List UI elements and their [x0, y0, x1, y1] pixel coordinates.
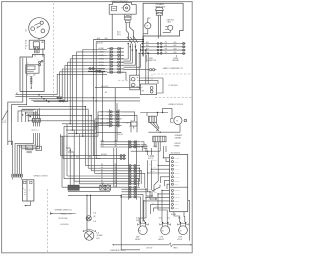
label ice maker water valve	[155, 3, 165, 8]
surface light module wiring	[140, 108, 172, 118]
bottom dimension line with arrows	[112, 243, 192, 247]
butter conditioner receptacle	[130, 75, 140, 90]
svg-text:B-14: B-14	[96, 233, 99, 235]
label A-1 (power cord lead)	[24, 29, 27, 32]
svg-text:B-32 (BK): B-32 (BK)	[175, 197, 181, 199]
left small ladder (4 rows)	[121, 188, 138, 198]
label M4 leads	[159, 218, 170, 220]
relay K1 and overload boxes	[26, 145, 42, 153]
labels under dimension line	[146, 246, 178, 249]
svg-text:CONT. ON: CONT. ON	[146, 247, 152, 249]
svg-text:B-36: B-36	[69, 157, 72, 159]
wire top supply bus N	[96, 41, 143, 43]
svg-text:B-7 (OR): B-7 (OR)	[175, 180, 180, 182]
svg-text:B-32: B-32	[146, 45, 149, 47]
wire arrows defrost leads	[127, 36, 138, 44]
svg-text:SIDE BY SIDE: SIDE BY SIDE	[58, 218, 67, 220]
wire long return run	[121, 195, 140, 249]
compressor motor M5	[178, 222, 189, 235]
label schematic series	[55, 208, 73, 211]
condenser fan motor M4	[160, 222, 171, 235]
wire junction box to control box	[42, 48, 44, 56]
svg-text:B-3 (R): B-3 (R)	[175, 165, 179, 167]
wire ice maker supply left edge	[142, 36, 144, 56]
svg-text:B-31: B-31	[154, 192, 157, 194]
label M5 leads	[178, 218, 181, 220]
svg-text:B-22: B-22	[101, 146, 104, 148]
wire verticals crossing ladder	[114, 148, 117, 187]
border frame of diagram sheet	[2, 2, 193, 253]
svg-text:COMP: COMP	[178, 237, 182, 239]
wire elbows feeding J2	[18, 108, 40, 122]
wire plug to junction box	[38, 38, 40, 40]
svg-text:B-6: B-6	[101, 172, 103, 174]
thermostat S1 (cold control) inner assembly	[26, 60, 43, 73]
wires module outputs and labels row	[131, 142, 160, 160]
ground return arrow under door switch	[24, 201, 30, 206]
label B-D6	[117, 134, 124, 136]
label cube size adjust	[166, 19, 173, 23]
power plug P1 (power cord)	[29, 18, 50, 39]
wire elbows right of J4	[96, 112, 137, 132]
svg-text:B-7: B-7	[101, 175, 103, 177]
svg-text:Y: Y	[38, 130, 40, 131]
svg-text:CONNECTOR: CONNECTOR	[147, 60, 156, 62]
harness connector J4 (middle ladder)	[101, 109, 122, 127]
svg-text:B-PLUG: B-PLUG	[171, 214, 176, 216]
svg-text:B-35 (P): B-35 (P)	[175, 208, 180, 210]
wires feeding junction block and door contacts	[66, 148, 108, 185]
wires from connector strip to module box	[136, 168, 144, 188]
svg-text:+DEFROST: +DEFROST	[174, 143, 181, 145]
svg-text:B-30: B-30	[148, 188, 151, 190]
svg-text:3: 3	[37, 27, 38, 29]
wires out of right terminal module box	[139, 157, 189, 240]
wire timer motor to line bus	[111, 14, 113, 39]
wire connector terminal strip rows	[141, 41, 186, 55]
wires terminal rows to receptacle	[136, 49, 140, 75]
labels on module box feed wires	[147, 156, 176, 216]
evaporator fan motor M3	[137, 222, 148, 235]
label A-D2	[97, 41, 103, 44]
svg-text:LT. SWITCHES: LT. SWITCHES	[168, 85, 177, 87]
wire diagonal to left border	[2, 111, 7, 120]
svg-text:B-6 (GY): B-6 (GY)	[175, 177, 180, 179]
inline connector row (light circuit)	[88, 68, 105, 73]
wire center vertical drop	[114, 88, 116, 142]
wire elbows J2 pins to bundle	[8, 141, 40, 149]
main harness connector J1 (upper ladder)	[99, 47, 125, 74]
wire water valve leads	[158, 15, 160, 38]
wire long horizontal run 2	[58, 100, 140, 102]
defrost heater resistor R1 (hatched element)	[30, 76, 33, 89]
wires from hatched connector down	[131, 142, 161, 152]
label side by side	[58, 218, 67, 220]
main schematic ladder rows (upper group)	[100, 140, 140, 147]
svg-text:B-4 (Y): B-4 (Y)	[175, 169, 179, 171]
svg-text:B-3: B-3	[101, 164, 103, 166]
wire elbows into connector J4	[70, 112, 109, 136]
door switch terminal lugs	[12, 174, 23, 177]
labels lamp	[96, 233, 102, 240]
wire W run to lower left	[11, 92, 26, 123]
wire bus drops to connector	[93, 40, 96, 48]
svg-text:B-2: B-2	[122, 48, 124, 50]
svg-text:(M-C): (M-C)	[117, 34, 121, 36]
svg-text:B-13 B-PLUG: B-13 B-PLUG	[60, 224, 68, 226]
caption M3	[135, 236, 141, 241]
connector strip J3 (two-column)	[129, 140, 137, 199]
svg-text:B-5: B-5	[101, 169, 103, 171]
wire weave horizontal runs (center-left)	[18, 106, 109, 137]
section divider dashed line (cabinet light)	[118, 74, 192, 80]
svg-text:B-36 (BU): B-36 (BU)	[101, 154, 107, 156]
label A-2 BK	[95, 70, 101, 73]
svg-text:B-36 (BU): B-36 (BU)	[148, 155, 154, 157]
label A-D4	[117, 31, 121, 36]
door switch S3 assembly	[22, 180, 34, 201]
wire elbows (upper ladder to right)	[124, 43, 142, 67]
wire ice maker motor lead	[143, 29, 148, 34]
caption M4	[158, 237, 164, 241]
svg-text:B-4: B-4	[101, 167, 103, 169]
svg-text:SCREW: SCREW	[173, 58, 179, 60]
labels on distribution line	[101, 85, 134, 88]
section divider dashed line (top left vertical)	[53, 3, 55, 96]
wires right bottom cluster	[138, 142, 167, 222]
junction box with strain relief	[25, 40, 45, 50]
door switch contacts (crossed boxes)	[100, 185, 111, 190]
svg-text:B-11: B-11	[101, 186, 104, 188]
wire surface module bottom run	[148, 125, 180, 133]
light switch S4 box	[140, 84, 156, 95]
junction block filled	[68, 185, 79, 190]
inline connectors mid group	[100, 154, 126, 159]
wire weave vertical drops to schematic ladder	[62, 107, 100, 188]
water valve solenoid body	[155, 7, 163, 15]
freezer light lamp DS1	[86, 213, 91, 221]
svg-text:MOTOR: MOTOR	[177, 239, 182, 241]
svg-text:B-1 (BK): B-1 (BK)	[175, 158, 180, 160]
wire timer contact 4	[129, 23, 133, 40]
leader lines for labels	[146, 55, 176, 62]
right terminal module box with circle column	[170, 152, 188, 211]
svg-text:THERMO: THERMO	[174, 145, 180, 147]
wires inside control housing	[23, 58, 27, 92]
section label cabinet lights	[163, 67, 184, 70]
svg-text:B-3: B-3	[122, 52, 124, 54]
inline connector on orange lead	[124, 69, 157, 71]
wires switch loop	[157, 78, 163, 93]
small auxiliary box top left of module section	[131, 120, 137, 128]
label ground lead vertical	[2, 119, 7, 123]
main schematic ladder rows (lower group)	[100, 164, 140, 188]
svg-text:G: G	[185, 120, 186, 122]
svg-text:B-30: B-30	[136, 218, 139, 220]
label defrost timer	[112, 0, 129, 3]
labels freezer light leads	[93, 213, 96, 224]
svg-text:COND: COND	[159, 237, 163, 239]
svg-text:GN: GN	[25, 46, 27, 48]
svg-text:B-5 (BU): B-5 (BU)	[175, 173, 180, 175]
svg-text:LT: LT	[142, 87, 144, 89]
wire freezer light feeders	[87, 195, 90, 228]
label bottom left	[110, 249, 126, 252]
svg-text:B-31: B-31	[146, 42, 149, 44]
temperature control housing outline	[20, 54, 44, 91]
svg-text:BK: BK	[32, 129, 34, 131]
svg-text:B-31 (W): B-31 (W)	[175, 194, 180, 196]
svg-text:B-33 (R): B-33 (R)	[175, 201, 180, 203]
ice maker assembly outline	[143, 3, 183, 41]
svg-text:B-21: B-21	[101, 143, 104, 145]
label M3 leads	[136, 218, 139, 222]
wire long horizontal run 1	[56, 97, 140, 99]
section divider dashed line (bottom left vertical)	[47, 189, 49, 252]
label surface light switch	[33, 175, 47, 178]
svg-text:B-15: B-15	[93, 221, 96, 223]
svg-text:B-9: B-9	[101, 180, 103, 182]
wires extending inline connector rows left	[61, 134, 101, 158]
label A-5	[105, 91, 107, 94]
wire top supply bus L	[93, 39, 143, 41]
wire lower right elbow	[124, 72, 126, 80]
label top bus	[97, 37, 108, 40]
caption M5	[177, 237, 182, 241]
svg-text:1: 1	[35, 32, 36, 34]
label screw terminal	[172, 58, 179, 62]
wire BK run to lower left	[8, 92, 23, 123]
light module block	[149, 116, 159, 131]
connector block hatched	[153, 136, 166, 142]
wire timer contact 2	[126, 23, 128, 40]
harness connector J2 (4-pin hatched)	[32, 119, 41, 142]
wires upper feeds to cluster	[148, 146, 166, 192]
svg-text:BK: BK	[25, 41, 27, 43]
svg-text:B-8: B-8	[101, 177, 103, 179]
labels weave	[69, 157, 91, 159]
label defrost thermostat	[174, 143, 181, 148]
svg-text:WD-1 MODULE: WD-1 MODULE	[171, 152, 180, 154]
svg-text:B-13: B-13	[93, 213, 96, 215]
labels freezer light	[60, 214, 71, 227]
freezer light lamp DS2 with holder	[83, 229, 95, 241]
svg-text:B-4: B-4	[122, 55, 124, 57]
svg-text:B-32: B-32	[159, 218, 162, 220]
label wire connector	[147, 58, 156, 62]
wire bundle to door switch	[8, 145, 22, 174]
defrost timer terminal stack	[124, 14, 131, 22]
svg-text:R: R	[36, 130, 38, 131]
svg-text:B-D6 (GY): B-D6 (GY)	[117, 134, 124, 136]
defrost timer U1 assembly	[109, 3, 136, 15]
wires receptacle to switch	[139, 78, 163, 80]
label defrost heater lead	[27, 74, 36, 77]
wire bundle into defrost heater circuit	[15, 92, 67, 102]
svg-text:B-3: B-3	[149, 163, 151, 165]
wire lugs into door switch	[13, 177, 22, 180]
dimension arrow line	[50, 212, 75, 215]
svg-text:B-2 (W): B-2 (W)	[175, 161, 180, 163]
wire distribution line with arrows	[95, 87, 141, 88]
svg-text:B-33: B-33	[167, 218, 170, 220]
terminal block TB1	[35, 49, 40, 52]
wire staircase harness (upper ladder to left)	[57, 50, 107, 137]
wire long verticals from supply bus to ladder	[93, 47, 103, 158]
ice maker motor M1	[145, 18, 151, 29]
wire horizontal feeders to lamps	[68, 191, 121, 196]
section divider dashed line (light switches)	[155, 97, 192, 99]
svg-text:B-8 (T): B-8 (T)	[175, 184, 179, 186]
surface light motor M2	[170, 116, 186, 124]
cube size thermostat S2	[163, 25, 173, 32]
label schematic diagram	[175, 134, 183, 140]
wires rows to light switch box	[145, 49, 149, 84]
svg-text:B-34: B-34	[178, 218, 181, 220]
wire center vertical drop 2	[116, 103, 118, 142]
svg-text:FREEZER LT. (W): FREEZER LT. (W)	[60, 214, 71, 216]
svg-text:CUBE SIZE: CUBE SIZE	[166, 19, 173, 21]
svg-text:B-2 (W): B-2 (W)	[152, 160, 157, 162]
wire left pair continues down	[8, 122, 12, 145]
svg-text:WIRE: WIRE	[149, 58, 153, 60]
svg-text:B-34 (Y): B-34 (Y)	[175, 204, 180, 206]
section label surface light module	[168, 103, 183, 106]
svg-text:B-37 (Y): B-37 (Y)	[148, 158, 153, 160]
svg-text:B-6: B-6	[89, 157, 91, 159]
section label light switches	[168, 85, 177, 87]
wire from junction block	[79, 186, 99, 188]
svg-text:B-30 (BU): B-30 (BU)	[175, 190, 181, 192]
